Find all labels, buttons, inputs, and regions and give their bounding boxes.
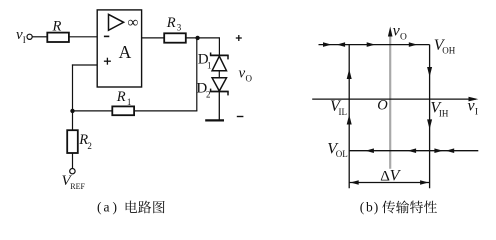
wire R3 to output node <box>186 37 220 39</box>
bottom line arrow left 1 <box>365 148 374 153</box>
svg-text:a: a <box>104 200 110 215</box>
vO axis gray line <box>389 34 391 169</box>
feedback wire to R1 <box>134 110 197 112</box>
label VIH <box>430 100 448 119</box>
top line arrow right 2 <box>367 42 376 47</box>
Vref terminal circle <box>70 169 75 174</box>
caption char 输 <box>396 200 409 213</box>
label delta V <box>380 167 401 184</box>
svg-text:∞: ∞ <box>128 15 139 31</box>
svg-text:): ) <box>374 200 379 215</box>
wire input to R <box>32 36 47 38</box>
wire D2 to bottom terminal <box>218 92 220 120</box>
svg-text:): ) <box>113 200 118 215</box>
right vertical arrow down 1 <box>427 67 432 77</box>
svg-text:R: R <box>116 89 126 105</box>
VIH right vertical line <box>429 45 431 189</box>
caption (a) latin part <box>97 200 117 215</box>
caption char 传 <box>382 201 395 214</box>
input terminal circle <box>27 34 32 39</box>
caption char 特 <box>410 201 423 214</box>
op-amp gain triangle <box>109 14 124 30</box>
left vertical arrow up 2 <box>347 115 352 125</box>
wire node up to plus input level <box>72 64 74 111</box>
right vertical arrow down 2 <box>427 119 432 129</box>
label D1 <box>198 52 212 71</box>
zener diode D1 <box>210 53 229 71</box>
feedback wire down from output node <box>196 38 198 111</box>
svg-text:2: 2 <box>87 141 92 151</box>
bottom terminal bar <box>205 119 224 121</box>
svg-text:A: A <box>119 42 132 62</box>
resistor R3 <box>164 33 186 42</box>
vO axis arrowhead <box>388 27 393 37</box>
output minus polarity <box>237 116 244 118</box>
label VOL <box>327 141 348 160</box>
VIL left vertical line <box>348 45 350 189</box>
svg-text:O: O <box>400 33 407 43</box>
svg-text:OH: OH <box>442 46 455 56</box>
svg-text:REF: REF <box>70 182 85 191</box>
zener diode D2 <box>210 78 229 96</box>
left vertical arrow up 1 <box>347 69 352 79</box>
svg-text:R: R <box>52 19 62 35</box>
svg-text:I: I <box>23 35 26 45</box>
label vI axis <box>468 98 479 118</box>
label vO axis <box>393 22 407 42</box>
op-amp A box <box>97 10 141 87</box>
svg-text:IH: IH <box>439 108 449 118</box>
output plus polarity <box>236 35 242 41</box>
label R3 <box>166 15 182 33</box>
svg-text:O: O <box>246 74 253 84</box>
VOL bottom line <box>349 150 478 152</box>
top line arrow left 1 <box>337 42 346 47</box>
svg-text:R: R <box>166 15 176 31</box>
svg-text:IL: IL <box>339 107 348 117</box>
bottom line arrow right pair <box>434 148 443 153</box>
output node junction dot <box>195 36 199 40</box>
label VOH <box>434 37 456 56</box>
caption char 图 <box>153 201 164 213</box>
wire down to diode D1 <box>218 37 220 55</box>
svg-text:(: ( <box>97 200 102 215</box>
svg-text:1: 1 <box>127 97 131 107</box>
svg-text:3: 3 <box>177 23 182 33</box>
top line arrow right 3 <box>409 42 418 47</box>
top line arrow right 1 <box>323 42 332 47</box>
wire to op-amp plus input <box>72 64 97 66</box>
resistor R2 <box>67 130 78 153</box>
caption char 电 <box>126 201 138 213</box>
resistor R1 <box>112 106 134 115</box>
caption char 性 <box>424 201 437 214</box>
svg-text:I: I <box>475 108 478 118</box>
svg-text:2: 2 <box>206 89 211 99</box>
svg-text:v: v <box>239 66 246 82</box>
svg-text:b: b <box>366 200 373 215</box>
svg-text:O: O <box>377 98 388 114</box>
wire R to op-amp inverting input <box>69 36 97 38</box>
label R2 <box>78 132 92 151</box>
caption char 路 <box>138 201 151 214</box>
label v_O output <box>239 66 253 84</box>
label D2 <box>196 80 210 99</box>
VOH top line <box>319 44 430 46</box>
wire node down to R2 <box>72 111 74 130</box>
caption (b) latin part <box>360 200 379 215</box>
bottom line arrow left 2 <box>408 148 417 153</box>
wire R1 to plus node <box>73 110 113 112</box>
wire R2 to Vref terminal <box>72 153 74 169</box>
svg-text:(: ( <box>360 200 365 215</box>
delta V dimension line <box>349 180 429 185</box>
bottom line arrow left pair <box>446 148 455 153</box>
minus input marker <box>104 35 109 37</box>
vI axis horizontal <box>312 97 478 102</box>
input label v_I <box>16 27 26 45</box>
label VIL <box>330 98 347 117</box>
svg-text:1: 1 <box>207 61 212 71</box>
label V_REF <box>62 173 86 191</box>
wire D1 to D2 <box>218 71 220 78</box>
wire op-amp output to R3 <box>142 37 164 39</box>
svg-text:OL: OL <box>336 149 348 159</box>
plus node junction dot <box>70 109 74 113</box>
label R1 <box>116 89 132 107</box>
resistor R <box>47 33 69 42</box>
plus input marker <box>104 58 111 65</box>
